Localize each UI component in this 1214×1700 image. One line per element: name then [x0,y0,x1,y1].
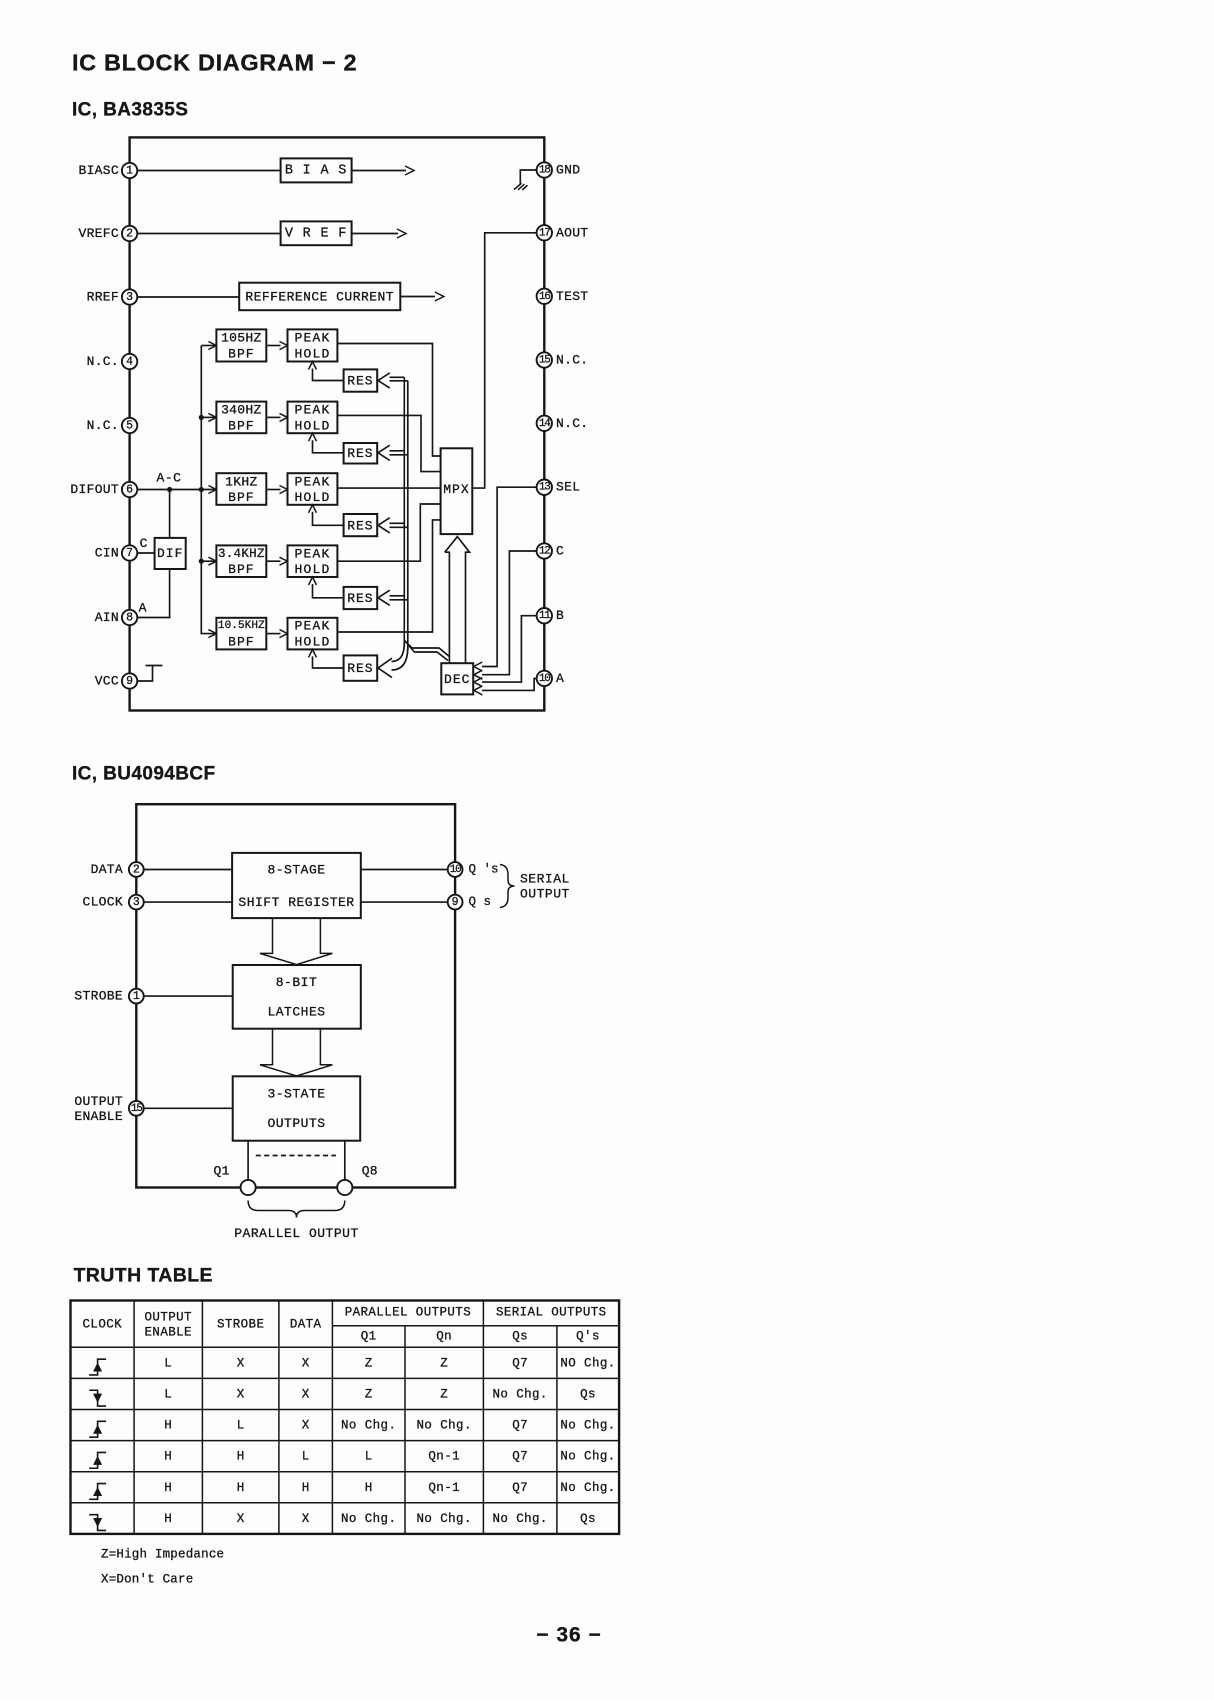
wire pin13 SEL to DEC [482,487,537,666]
svg-text:Q 's: Q 's [469,863,499,877]
svg-text:H: H [237,1450,245,1464]
wire bus to 3.4KHZ BPF [201,560,216,562]
wire 3-state to Q1 pad [247,1141,249,1188]
svg-text:No Chg.: No Chg. [492,1387,547,1401]
wire PEAK HOLD 2 output to MPX in2 [337,415,440,471]
wire PEAK HOLD 3 output to MPX in3 [337,487,440,489]
arrow 1KHZ BPF to PEAK HOLD [266,489,280,491]
pin 16 TEST [537,289,552,304]
svg-text:No Chg.: No Chg. [560,1481,615,1495]
truth table row 6 [89,1515,106,1531]
svg-text:Q7: Q7 [512,1450,528,1464]
block PEAK HOLD 3 [288,473,338,505]
svg-text:TEST: TEST [556,289,588,304]
svg-text:PEAK: PEAK [294,474,330,489]
svg-text:Qn-1: Qn-1 [428,1481,460,1495]
svg-text:L: L [237,1419,245,1433]
wire pin3 to REFFERENCE CURRENT [130,296,240,298]
truth table row 2 [89,1390,106,1406]
svg-text:10: 10 [450,864,461,876]
reset branch arrow into RES 5 [392,643,405,662]
svg-text:3-STATE: 3-STATE [267,1086,325,1101]
pin 15 N.C. [537,352,552,367]
bus arrow latches to 3-state outputs [260,1029,333,1076]
block PEAK HOLD 1 [288,329,338,361]
pin 17 AOUT [537,225,552,240]
block 3-STATE OUTPUTS [233,1076,361,1140]
svg-text:RES: RES [347,518,373,533]
svg-text:H: H [237,1481,245,1495]
wire pin11 B to DEC [482,616,537,682]
wire pin2 to VREF [130,233,281,235]
bus arrow DEC to MPX [445,537,470,664]
block REFFERENCE CURRENT [239,283,400,311]
wire pin7 CIN to DIF [137,552,154,554]
block RES 1 [344,369,378,391]
pin 18 GND [537,162,552,177]
svg-text:N.C.: N.C. [87,418,119,433]
svg-text:STROBE: STROBE [74,989,123,1004]
svg-text:C: C [556,544,564,559]
svg-text:RES: RES [347,446,373,461]
wire RES 1 to PEAK HOLD 1 [313,369,344,381]
svg-text:DIFOUT: DIFOUT [70,482,119,497]
block PEAK HOLD 2 [288,402,338,434]
block MPX [441,448,473,534]
svg-text:PARALLEL OUTPUTS: PARALLEL OUTPUTS [345,1306,471,1320]
pin 13 SEL [537,480,552,495]
svg-text:X: X [302,1387,310,1401]
svg-text:8-STAGE: 8-STAGE [267,862,325,877]
block DIF [155,538,186,569]
svg-text:A: A [139,601,147,616]
svg-text:PEAK: PEAK [294,546,330,561]
pin 2 DATA [129,862,144,877]
svg-text:12: 12 [539,546,550,558]
svg-text:Z: Z [365,1387,373,1401]
svg-text:6: 6 [126,484,133,497]
svg-text:Qs: Qs [580,1512,596,1526]
svg-text:No Chg.: No Chg. [417,1512,472,1526]
arrow 10.5KHZ BPF to PEAK HOLD [266,633,280,635]
svg-text:SERIAL OUTPUTS: SERIAL OUTPUTS [496,1306,607,1320]
svg-text:L: L [365,1450,373,1464]
svg-text:BPF: BPF [228,562,254,577]
svg-text:H: H [164,1419,172,1433]
svg-text:Z: Z [440,1387,448,1401]
svg-text:HOLD: HOLD [294,490,330,505]
node bus-340hz junction [199,415,204,420]
svg-text:1KHZ: 1KHZ [225,474,257,489]
svg-text:CIN: CIN [95,546,119,561]
svg-text:4: 4 [126,356,133,369]
node A-C junction [167,487,172,492]
pin 10 A [537,671,552,686]
svg-text:1: 1 [133,990,140,1003]
pin 14 N.C. [537,416,552,431]
svg-text:15: 15 [131,1103,142,1115]
svg-text:SHIFT REGISTER: SHIFT REGISTER [238,895,354,910]
wire shift register to pin9 [361,901,455,903]
pin 2 VREFC [122,226,137,241]
wire pin1 to BIAS [130,170,281,172]
svg-text:No Chg.: No Chg. [560,1450,615,1464]
wire A-C node to DIF [169,490,171,538]
svg-text:N.C.: N.C. [556,353,588,368]
svg-text:OUTPUTS: OUTPUTS [267,1116,325,1131]
wire pin18 to ground [520,170,536,184]
reset branch arrow into RES 3 [390,522,405,524]
truth table row 1 [89,1359,106,1375]
wire PEAK HOLD 4 output to MPX in4 [337,504,440,561]
truth table row 3 [89,1421,106,1437]
svg-text:PEAK: PEAK [294,330,330,345]
truth table grid [71,1301,620,1534]
reset branch arrow into RES 1 [390,376,405,378]
block RES 4 [344,587,378,609]
svg-text:L: L [164,1356,172,1370]
svg-text:BPF: BPF [228,635,254,650]
svg-text:8: 8 [126,612,133,625]
wire bus to 105HZ BPF [201,345,216,347]
wire RES 4 to PEAK HOLD 4 [313,584,344,598]
svg-text:STROBE: STROBE [217,1318,264,1332]
arrow 340HZ BPF to PEAK HOLD [266,416,280,418]
svg-text:NO Chg.: NO Chg. [560,1356,615,1370]
svg-text:X: X [302,1356,310,1370]
svg-text:BPF: BPF [228,418,254,433]
svg-text:H: H [164,1450,172,1464]
svg-text:SERIAL: SERIAL [520,872,570,887]
truth table row 5 [89,1484,106,1500]
svg-text:V R E F: V R E F [285,226,347,241]
pin 7 CIN [122,545,137,560]
wire bus to 340HZ BPF [201,416,216,418]
arrow 3.4KHZ BPF to PEAK HOLD [266,560,280,562]
wire reset bus double vertical [403,377,405,646]
svg-text:X=Don't Care: X=Don't Care [101,1573,193,1587]
wire pin1 STROBE to latches [136,995,232,997]
svg-text:HOLD: HOLD [294,635,330,650]
svg-text:X: X [237,1387,245,1401]
ground symbol [514,183,522,189]
svg-text:2: 2 [126,228,133,241]
wire MPX output to pin17 AOUT [472,233,536,488]
brace serial output [500,865,515,908]
svg-text:CLOCK: CLOCK [82,895,123,910]
svg-text:OUTPUT: OUTPUT [520,887,570,902]
pin 5 N.C. [122,418,137,433]
wire PEAK HOLD 5 output to MPX in5 [337,520,440,632]
wire pin12 C to DEC [482,551,537,675]
svg-text:11: 11 [539,610,551,622]
pin 1 STROBE [129,989,144,1004]
bus arrow shift register to latches [260,918,333,965]
svg-text:LATCHES: LATCHES [267,1005,325,1020]
svg-text:7: 7 [126,547,133,560]
svg-text:PARALLEL OUTPUT: PARALLEL OUTPUT [234,1226,359,1241]
svg-text:IC BLOCK DIAGRAM − 2: IC BLOCK DIAGRAM − 2 [72,50,357,76]
filter 10.5KHZ BPF [216,618,266,650]
wire pin15 OUTPUT ENABLE to 3-state outputs [136,1107,232,1109]
svg-text:IC, BA3835S: IC, BA3835S [72,100,188,121]
block PEAK HOLD 4 [288,545,338,577]
svg-text:REFFERENCE CURRENT: REFFERENCE CURRENT [245,290,394,305]
svg-text:BIASC: BIASC [78,163,119,178]
svg-text:Q's: Q's [576,1330,600,1344]
svg-text:RREF: RREF [87,290,119,305]
svg-text:Q7: Q7 [512,1356,528,1370]
svg-text:17: 17 [539,227,550,239]
svg-text:Q7: Q7 [512,1481,528,1495]
pin 11 B [537,608,552,623]
wire pin3 CLOCK to shift register [136,901,232,903]
svg-text:AIN: AIN [95,610,119,625]
block RES 5 [344,655,378,680]
svg-text:B I A S: B I A S [285,163,347,178]
svg-text:N.C.: N.C. [556,416,588,431]
svg-text:5: 5 [126,420,133,433]
pin 10 Q's [448,862,463,877]
svg-text:14: 14 [539,418,551,430]
svg-text:No Chg.: No Chg. [417,1419,472,1433]
svg-text:No Chg.: No Chg. [560,1419,615,1433]
svg-text:A-C: A-C [157,471,182,486]
svg-text:H: H [365,1481,373,1495]
wire pin6 DIFOUT to 1KHZ BPF input [130,489,217,491]
arrow REFFERENCE CURRENT output [400,296,435,298]
arrow BIAS output [352,170,406,172]
svg-text:RES: RES [347,591,373,606]
svg-text:PEAK: PEAK [294,403,330,418]
svg-text:X: X [302,1512,310,1526]
brace parallel output [248,1201,345,1218]
block BIAS [281,158,352,182]
wire RES 5 to PEAK HOLD 5 [313,656,344,668]
svg-text:15: 15 [539,355,550,367]
pin 4 N.C. [122,354,137,369]
pin 6 DIFOUT [122,482,137,497]
svg-text:GND: GND [556,163,580,178]
pad Q8 [337,1180,352,1195]
wire RES 3 to PEAK HOLD 3 [313,512,344,526]
truth table row 4 [89,1452,106,1468]
svg-text:13: 13 [539,482,550,494]
svg-text:9: 9 [452,896,459,909]
IC BU4094BCF body outline [136,804,455,1187]
svg-text:2: 2 [133,864,140,877]
svg-text:BPF: BPF [228,347,254,362]
svg-text:VREFC: VREFC [78,226,119,241]
wire RES 2 to PEAK HOLD 2 [313,440,344,453]
arrow VREF output [352,233,398,235]
svg-text:3: 3 [133,896,140,909]
svg-text:Q7: Q7 [512,1419,528,1433]
svg-text:H: H [164,1481,172,1495]
svg-text:Qs: Qs [512,1330,528,1344]
svg-text:16: 16 [539,291,550,303]
node bus-3.4khz junction [199,559,204,564]
wire 3-state to Q8 pad [344,1141,346,1188]
svg-text:340HZ: 340HZ [221,403,262,418]
svg-text:10.5KHZ: 10.5KHZ [218,620,265,632]
svg-text:10: 10 [539,673,550,685]
node bus-1khz junction [199,487,204,492]
block 8-STAGE SHIFT REGISTER [232,853,361,918]
wire PEAK HOLD 1 output to MPX in1 [337,344,440,457]
svg-text:C: C [140,536,148,551]
block VREF [281,221,352,245]
pin 9 VCC [122,673,137,688]
pin 8 AIN [122,610,137,625]
svg-text:DIF: DIF [157,546,183,561]
filter 1KHZ BPF [216,473,266,505]
filter 105HZ BPF [216,329,266,361]
svg-text:Qs: Qs [580,1387,596,1401]
pin 3 RREF [122,289,137,304]
block DEC [441,663,473,694]
dashed line between Q1 and Q8 [256,1155,336,1157]
svg-text:VCC: VCC [95,674,119,689]
svg-text:No Chg.: No Chg. [492,1512,547,1526]
svg-text:B: B [556,608,564,623]
pin 12 C [537,543,552,558]
svg-text:N.C.: N.C. [87,354,119,369]
svg-text:ENABLE: ENABLE [145,1326,192,1340]
svg-text:Q8: Q8 [362,1164,378,1179]
svg-text:HOLD: HOLD [294,562,330,577]
svg-text:A: A [556,671,564,686]
pin 1 BIASC [122,163,137,178]
reset branch arrow into RES 2 [390,450,405,452]
svg-text:HOLD: HOLD [294,418,330,433]
svg-text:TRUTH TABLE: TRUTH TABLE [74,1264,213,1286]
svg-text:SEL: SEL [556,480,580,495]
svg-text:105HZ: 105HZ [221,330,262,345]
wire pin10 A to DEC [482,678,537,690]
svg-text:Q s: Q s [469,895,492,909]
block PEAK HOLD 5 [288,618,338,650]
svg-text:AOUT: AOUT [556,225,588,240]
wire pin9 to VCC rail [137,666,152,682]
svg-text:Q1: Q1 [361,1330,377,1344]
svg-text:− 36 −: − 36 − [536,1624,602,1647]
wire DIF to pin8 AIN [137,569,169,618]
svg-text:DEC: DEC [444,672,470,687]
svg-text:9: 9 [126,675,133,688]
svg-text:OUTPUT: OUTPUT [74,1094,123,1109]
svg-text:Z=High Impedance: Z=High Impedance [101,1548,224,1562]
wire pin2 DATA to shift register [136,869,232,871]
svg-text:IC, BU4094BCF: IC, BU4094BCF [72,763,216,784]
svg-text:Z: Z [365,1356,373,1370]
wire shift register to pin10 [361,869,455,871]
svg-text:OUTPUT: OUTPUT [145,1311,193,1325]
svg-text:ENABLE: ENABLE [74,1109,123,1124]
svg-text:X: X [302,1419,310,1433]
svg-text:X: X [237,1512,245,1526]
svg-text:MPX: MPX [443,482,469,497]
filter 340HZ BPF [216,402,266,434]
svg-text:No Chg.: No Chg. [341,1419,396,1433]
svg-text:CLOCK: CLOCK [83,1318,123,1332]
VCC rail symbol [146,665,163,667]
pin 3 CLOCK [129,895,144,910]
svg-text:H: H [302,1481,310,1495]
pin 9 Qs [448,895,463,910]
pin 15 OUTPUT ENABLE [129,1101,144,1116]
svg-text:PEAK: PEAK [294,619,330,634]
svg-text:HOLD: HOLD [294,347,330,362]
block RES 2 [344,443,378,464]
pad Q1 [241,1180,256,1195]
svg-text:BPF: BPF [228,490,254,505]
svg-text:Qn-1: Qn-1 [428,1450,460,1464]
svg-text:18: 18 [539,165,550,177]
svg-text:DATA: DATA [290,1318,322,1332]
svg-text:Z: Z [440,1356,448,1370]
svg-text:RES: RES [347,661,373,676]
svg-text:Qn: Qn [436,1330,452,1344]
wire input bus vertical [201,346,216,634]
IC BA3835S body outline [130,137,545,710]
arrow 105HZ BPF to PEAK HOLD [266,345,280,347]
block RES 3 [344,514,378,536]
svg-text:3: 3 [126,291,133,304]
block 8-BIT LATCHES [233,965,361,1029]
svg-text:L: L [164,1387,172,1401]
reset branch arrow into RES 4 [390,595,405,597]
filter 3.4KHZ BPF [216,545,266,577]
svg-text:No Chg.: No Chg. [341,1512,396,1526]
svg-text:3.4KHZ: 3.4KHZ [218,547,265,561]
wire reset bus jog to DEC [404,641,449,657]
svg-text:X: X [237,1356,245,1370]
svg-text:DATA: DATA [91,862,123,877]
svg-text:8-BIT: 8-BIT [276,975,318,990]
svg-text:Q1: Q1 [213,1164,229,1179]
svg-text:H: H [164,1512,172,1526]
svg-text:RES: RES [347,374,373,389]
svg-text:1: 1 [126,165,133,178]
svg-text:L: L [302,1450,310,1464]
